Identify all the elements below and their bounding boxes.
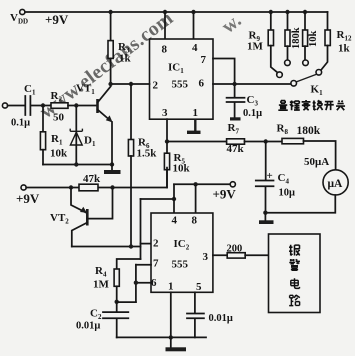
- svg-text:2: 2: [153, 238, 159, 250]
- svg-text:4: 4: [192, 42, 198, 54]
- svg-text:0.01μ: 0.01μ: [209, 313, 233, 324]
- wire R2 to VT1 base: [68, 105, 96, 107]
- ground (C3): [230, 117, 241, 120]
- wire R7 to R8: [245, 141, 283, 143]
- resistor R1: [40, 106, 45, 165]
- wire R7 row: [167, 141, 227, 143]
- wire 200 to alarm box: [245, 254, 268, 256]
- capacitor C4 electrolytic: [256, 142, 274, 213]
- node VDD terminal: [20, 9, 25, 14]
- resistor R6: [128, 84, 133, 247]
- junction dot emitter bottom: [110, 162, 114, 166]
- svg-text:6: 6: [151, 277, 157, 289]
- wire IC2 pin6 stub: [136, 282, 151, 284]
- ground (VT1 emitter): [104, 165, 121, 175]
- resistor 180k (switch bank): [285, 12, 290, 60]
- junction dot R1 top: [41, 103, 45, 107]
- junction dot 47k right: [110, 185, 114, 189]
- svg-text:1k: 1k: [338, 43, 351, 55]
- svg-text:6: 6: [199, 78, 205, 90]
- svg-text:+9V: +9V: [45, 12, 69, 27]
- wire IC2 pin3 out: [213, 254, 227, 256]
- svg-text:200: 200: [227, 244, 243, 255]
- wire rail to IC1 pin8: [164, 12, 166, 39]
- svg-text:+: +: [267, 170, 273, 182]
- svg-text:50: 50: [53, 112, 65, 124]
- svg-text:2: 2: [153, 80, 159, 92]
- svg-text:1.5k: 1.5k: [137, 148, 158, 160]
- resistor 47k (VT2 bias): [79, 184, 98, 191]
- wire IC1 pin3 down: [166, 119, 168, 141]
- junction dot C4 bottom: [263, 211, 267, 215]
- svg-text:1k: 1k: [119, 53, 132, 65]
- wire IC2 pin8 column: [195, 184, 197, 213]
- wire reset tap: [141, 198, 175, 200]
- svg-text:1M: 1M: [93, 279, 110, 291]
- svg-text:+9V: +9V: [16, 191, 40, 206]
- svg-text:1: 1: [193, 107, 199, 119]
- wire rail to R3: [110, 12, 112, 41]
- svg-text:47k: 47k: [83, 173, 101, 185]
- junction dot pin6/pin7/C3: [232, 82, 236, 86]
- svg-text:1M: 1M: [247, 41, 264, 53]
- svg-text:3: 3: [162, 107, 168, 119]
- wire rail to IC1 pin4: [193, 12, 195, 39]
- wire IC2 pin4 column: [173, 184, 175, 213]
- wire IC1 pin6 to switch: [213, 83, 291, 85]
- junction dot R6 bottom: [129, 244, 133, 248]
- input terminal node: [2, 103, 7, 108]
- junction dot R6 top: [129, 82, 133, 86]
- svg-text:180k: 180k: [297, 125, 321, 137]
- svg-text:555: 555: [172, 79, 189, 91]
- resistor 10k (switch bank): [303, 12, 308, 60]
- resistor R8: [282, 138, 304, 143]
- junction dot pin1 ground: [169, 335, 173, 339]
- svg-text:8: 8: [192, 215, 198, 227]
- wire VT2 collector to IC2 pin2 node: [72, 246, 141, 248]
- switch contact (180k): [285, 60, 291, 66]
- switch contact (R12): [316, 70, 322, 76]
- resistor R5: [164, 142, 169, 188]
- svg-text:7: 7: [201, 54, 207, 66]
- op-amp U1: IC1 555 body: [150, 39, 214, 119]
- watermark www.elecfans.com: [36, 7, 178, 123]
- resistor R4: [114, 259, 140, 302]
- wire C1 to R2: [31, 105, 51, 107]
- svg-text:μA: μA: [328, 178, 344, 190]
- svg-text:10k: 10k: [173, 163, 191, 175]
- wire collector node to IC1 pin2: [111, 83, 150, 85]
- junction dot D1 bottom: [74, 162, 78, 166]
- node +9V right terminal: [230, 182, 235, 187]
- resistor R2: [51, 103, 68, 109]
- wire IC2 pin7 stub: [136, 264, 151, 266]
- svg-text:8: 8: [162, 44, 168, 56]
- label alarm circuit chinese 报警电路: [289, 245, 300, 306]
- svg-text:3: 3: [203, 251, 209, 263]
- svg-text:5: 5: [196, 281, 202, 293]
- capacitor C3: [227, 84, 245, 117]
- wire R8 to meter: [304, 141, 336, 170]
- svg-text:10k: 10k: [308, 31, 319, 48]
- junction dot R4 bottom: [115, 300, 119, 304]
- wire input to C1: [8, 105, 25, 107]
- switch contact (10k): [303, 60, 309, 66]
- svg-text:50μA: 50μA: [304, 156, 329, 168]
- capacitor C2: [103, 302, 128, 338]
- junction dot collector node: [108, 82, 112, 86]
- switch resistor bank: resistor R9: [268, 12, 277, 73]
- junction dots on top rail: [108, 10, 112, 14]
- transistor VT2: [71, 188, 113, 247]
- wire pin6/7 to R4 bottom: [117, 301, 136, 303]
- wire R3 to collector node: [110, 58, 112, 84]
- junction dot reset tap: [172, 197, 176, 201]
- svg-text:0.01μ: 0.01μ: [76, 321, 100, 332]
- ground (IC2): [166, 337, 187, 351]
- junction dot pin3/R5/R7: [165, 139, 169, 143]
- junction dot pin6: [134, 281, 138, 285]
- svg-text:+9V: +9V: [213, 187, 237, 202]
- resistor R7: [227, 139, 245, 144]
- switch K1 arm: [296, 74, 316, 82]
- wire IC1 pin7 loop: [213, 59, 235, 85]
- capacitor 0.01u (pin5): [187, 292, 204, 337]
- ground (IC1 pin1): [187, 119, 201, 134]
- diode D1 (zener): [70, 106, 82, 165]
- wire pin2 stub: [141, 243, 152, 245]
- junction dot pin8 column: [193, 182, 197, 186]
- wire bottom rail IC2: [117, 336, 206, 338]
- wire top +9V rail: [25, 11, 328, 13]
- resistor R12: [321, 12, 330, 70]
- wire mid +9V rail: [26, 168, 167, 188]
- label range switch chinese 量程变换开关: [278, 100, 345, 110]
- wire bottom of R1/D1 to VT1 emitter: [43, 164, 112, 166]
- wire meter bottom to C4 bottom: [265, 195, 335, 213]
- switch K1 wiper: [291, 81, 297, 87]
- svg-text:555: 555: [172, 259, 189, 271]
- junction dot C4 top: [264, 139, 268, 143]
- op-amp U2: IC2 555 body: [151, 213, 213, 292]
- resistor R3: [108, 41, 113, 59]
- wire pin7 to pin6 vertical: [135, 265, 137, 302]
- ground (C4): [259, 213, 274, 224]
- svg-text:10μ: 10μ: [279, 188, 296, 199]
- svg-text:4: 4: [172, 215, 178, 227]
- alarm circuit box: [269, 234, 321, 313]
- svg-text:47k: 47k: [227, 143, 245, 155]
- svg-text:1: 1: [168, 281, 174, 293]
- watermark fragment top-right: [218, 9, 246, 38]
- capacitor C1: [25, 96, 30, 115]
- svg-text:0.1μ: 0.1μ: [11, 118, 30, 129]
- svg-text:7: 7: [153, 258, 159, 270]
- svg-text:10k: 10k: [50, 148, 68, 160]
- wire trigger vertical: [140, 199, 142, 259]
- svg-text:180k: 180k: [291, 27, 302, 49]
- svg-text:0.1μ: 0.1μ: [243, 108, 262, 119]
- junction dot 47k left: [69, 185, 73, 189]
- switch contact (R9): [277, 72, 283, 78]
- resistor 200: [227, 253, 245, 258]
- wire IC2 pin1 down: [170, 292, 172, 337]
- node +9V mid-left terminal: [21, 185, 26, 190]
- transistor VT1: [98, 87, 113, 165]
- wire +9V right rail to IC2: [174, 183, 230, 185]
- junction dot D1 top: [74, 103, 78, 107]
- meter uA: [323, 170, 348, 195]
